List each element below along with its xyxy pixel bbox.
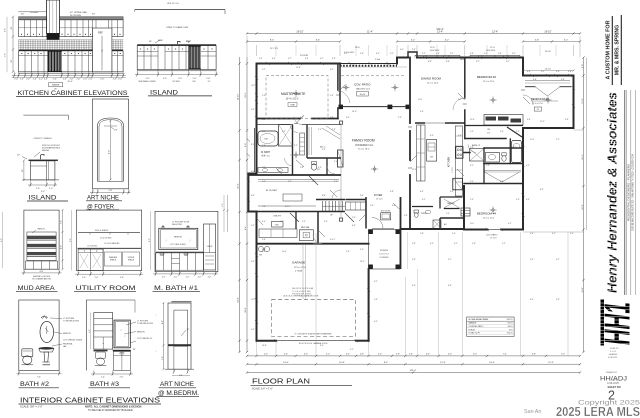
svg-text:8'-0": 8'-0" [1,238,3,242]
svg-text:Henry Hernandez & Associate: Henry Hernandez & Associates [605,92,620,293]
svg-text:30": 30" [21,14,24,16]
utility dims [77,272,79,276]
svg-text:WASHER: WASHER [109,256,118,259]
master window 3 [256,78,258,95]
svg-text:5'-2": 5'-2" [502,243,506,245]
svg-text:8'-0": 8'-0" [149,238,151,242]
svg-text:3050 WDW: 3050 WDW [486,50,495,52]
svg-text:11'-2": 11'-2" [251,85,256,87]
svg-text:9'-0": 9'-0" [222,203,224,207]
family west colonnade [340,121,343,124]
svg-text:MIRROR: MIRROR [137,331,145,333]
svg-text:22'-7 1/2: 22'-7 1/2 [270,48,279,50]
svg-text:6'-4": 6'-4" [245,226,247,230]
svg-text:BEDROOM #4: BEDROOM #4 [477,212,496,216]
svg-text:BATH #3: BATH #3 [90,381,119,388]
svg-text:2'-0": 2'-0" [82,277,86,279]
bath south wall [484,163,523,165]
svg-text:16'-10: 16'-10 [545,51,552,53]
svg-text:2'-8": 2'-8" [346,251,350,253]
svg-text:9'0: 9'0 [537,109,539,111]
svg-text:2'-8": 2'-8" [360,354,364,356]
master right wall lower [337,108,339,119]
svg-text:4'-2": 4'-2" [556,259,560,261]
svg-text:RAILING: RAILING [42,149,50,152]
utility room elevation [70,210,143,292]
bed3 window 2 [556,75,570,77]
svg-text:9'-4": 9'-4" [251,261,255,263]
svg-text:9' CLG: 9' CLG [452,167,454,173]
m.shower [279,125,293,147]
porch slab [368,230,400,270]
svg-text:ISLAND: ISLAND [29,195,57,202]
svg-text:2'-4": 2'-4" [101,377,105,379]
svg-text:PORCH: PORCH [380,250,388,252]
svg-text:12'-4": 12'-4" [440,362,446,364]
washer dryer spaces [105,252,122,266]
svg-text:4'-2": 4'-2" [512,53,516,55]
svg-text:2'-0": 2'-0" [264,354,268,356]
svg-text:4-08-2025: 4-08-2025 [608,357,618,359]
left step 2 [248,211,256,213]
bath3 left dim [90,313,92,350]
svg-text:FAMILY ROOM: FAMILY ROOM [352,139,375,143]
svg-text:ART NICHE: ART NICHE [87,195,119,201]
svg-text:5'-0": 5'-0" [556,71,560,73]
gallery bench [345,202,365,210]
svg-text:4-08-2025: 4-08-2025 [607,381,619,385]
svg-text:5'-0": 5'-0" [326,354,330,356]
svg-text:3'-6": 3'-6" [512,147,516,149]
svg-text:COVERED: COVERED [379,257,389,259]
svg-text:COFFERED CLG.: COFFERED CLG. [355,145,374,147]
svg-text:9'-8": 9'-8" [412,259,416,261]
svg-text:TO O.H. DOOR 2" MIN.: TO O.H. DOOR 2" MIN. [292,291,311,293]
svg-text:OPEN TO DINING: OPEN TO DINING [34,138,52,140]
svg-text:3'-2": 3'-2" [294,145,298,147]
kitchen sink island [427,140,437,162]
svg-text:5'-8": 5'-8" [385,65,389,67]
family east wall [409,131,411,160]
svg-text:VAULTED CLG: VAULTED CLG [356,88,371,91]
mud area elevation [1,209,64,292]
svg-text:BEDROOM #3: BEDROOM #3 [531,97,549,101]
kitchen east counter [455,126,462,196]
svg-text:16'-10": 16'-10" [296,31,303,33]
svg-text:SCALE: 3/8" = 1'-0": SCALE: 3/8" = 1'-0" [20,405,43,409]
exterior wall top [397,57,408,59]
svg-text:16'-10": 16'-10" [238,93,240,100]
light fixture [41,316,47,318]
right dimension lines [583,58,585,353]
mud slats [27,232,56,260]
svg-text:5'-8": 5'-8" [120,277,124,279]
left dimension lines [239,57,241,352]
svg-text:UTILITY: UTILITY [273,216,282,218]
garage left wall [256,212,258,341]
svg-text:7'-4": 7'-4" [37,376,41,378]
svg-text:SHIPLAP: SHIPLAP [37,241,46,244]
svg-text:3'-8": 3'-8" [565,119,569,121]
svg-text:5'-2": 5'-2" [448,259,452,261]
svg-text:3'-8": 3'-8" [568,71,572,73]
svg-text:GLOBAL AREA FRAME: GLOBAL AREA FRAME [468,318,489,321]
svg-text:3'-4": 3'-4" [430,135,434,137]
svg-text:4'-0": 4'-0" [304,354,308,356]
svg-text:2'-0": 2'-0" [113,78,117,80]
svg-text:2'-8": 2'-8" [412,243,416,245]
extra extension verticals top [276,45,556,56]
svg-text:W/ CROWN: W/ CROWN [70,15,81,17]
svg-text:2'-6": 2'-6" [446,213,450,215]
svg-text:ISLAND: ISLAND [150,89,178,96]
svg-text:5'-2": 5'-2" [288,58,292,60]
svg-text:2'-6": 2'-6" [120,377,124,379]
svg-text:5'-2": 5'-2" [506,61,510,63]
svg-text:5'-2": 5'-2" [262,69,266,71]
svg-text:2'-6": 2'-6" [262,95,266,97]
svg-text:11'-2": 11'-2" [251,299,256,301]
side cabinet body [31,161,55,180]
opening tick marks [247,56,575,342]
svg-text:2'-0": 2'-0" [174,277,178,279]
svg-text:6'-0": 6'-0" [262,181,266,183]
fireplace [338,150,344,167]
svg-text:M. CLOSET: M. CLOSET [266,190,278,192]
svg-text:5'-6": 5'-6" [530,259,534,261]
svg-text:3'-8": 3'-8" [334,181,338,183]
niche bottom [165,368,194,370]
svg-text:11'-0 x 12'-0: 11'-0 x 12'-0 [483,81,495,83]
toe kick [19,72,124,74]
svg-text:2'-0": 2'-0" [208,277,212,279]
kitchen north wall [415,122,425,124]
svg-text:12'-4": 12'-4" [492,31,498,33]
svg-text:RESIDENTIAL DESIGNERS - PLAN: RESIDENTIAL DESIGNERS - PLANNERS [626,164,630,221]
svg-text:TO BE FIELD VERIFIED BY BUILDE: TO BE FIELD VERIFIED BY BUILDER. [88,408,134,412]
master cluster [257,124,291,126]
master bottom wall 2 [312,118,338,120]
svg-text:5'-8": 5'-8" [470,147,474,149]
range (dark striped) [48,51,62,72]
island countertop [137,44,216,45]
side dims [23,161,25,180]
svg-text:COV. PATIO: COV. PATIO [486,234,498,237]
m.bath tub (horizontal) [258,131,278,146]
svg-text:13' CLG: 13' CLG [376,198,383,200]
svg-text:11'-0 x 12'-0: 11'-0 x 12'-0 [483,218,495,220]
svg-text:2'-8": 2'-8" [330,95,334,97]
svg-text:2'-6": 2'-6" [318,129,322,131]
mbath west inner wall [254,128,256,172]
powder [414,210,419,213]
linen cabinet [204,224,216,270]
svg-text:5'-6": 5'-6" [251,109,255,111]
svg-text:103'-4": 103'-4" [436,29,443,31]
pantry [440,196,463,198]
svg-text:PROVIDE EXP. JOINTS: PROVIDE EXP. JOINTS [292,294,312,296]
master window 2 [300,63,322,65]
svg-text:5'-0": 5'-0" [262,155,266,157]
bed4 window [487,229,501,231]
diagonal doors [290,213,299,222]
ceiling fans [292,84,551,214]
bed4 north wall [464,183,523,185]
svg-text:12'-4": 12'-4" [548,362,554,364]
svg-text:6'-2": 6'-2" [505,119,509,121]
svg-text:2'-8": 2'-8" [262,145,266,147]
svg-text:20'-0": 20'-0" [282,251,287,253]
svg-text:11'-0": 11'-0" [470,119,475,121]
mud bench [299,230,313,241]
svg-text:RANGE: RANGE [52,84,60,87]
svg-text:3'-2": 3'-2" [454,243,458,245]
svg-text:23'-0": 23'-0" [360,261,365,263]
svg-text:A CUSTOM HOME FOR: A CUSTOM HOME FOR [606,20,612,79]
bed3 window [532,75,548,77]
svg-text:INTERIOR CABINET ELEVATIONS: INTERIOR CABINET ELEVATIONS [20,395,160,404]
svg-text:MUD AREA: MUD AREA [18,285,56,292]
svg-text:LIN.: LIN. [487,129,491,131]
svg-text:4'-0": 4'-0" [420,191,424,193]
svg-text:DW: DW [430,157,433,159]
mud dims [62,210,64,269]
svg-text:4'-0": 4'-0" [262,221,266,223]
dining/bed2 wall [464,58,466,99]
svg-text:12'-6": 12'-6" [412,169,417,171]
patio screen wall (beaded) [340,63,397,65]
svg-text:5'-6": 5'-6" [500,131,504,133]
bed2 west wall [464,123,466,139]
svg-text:3'-2": 3'-2" [458,99,462,101]
svg-text:5'-8": 5'-8" [500,181,504,183]
svg-text:41'-0": 41'-0" [582,287,584,293]
svg-text:4'-2": 4'-2" [288,181,292,183]
exterior wall - master top [257,63,341,65]
svg-text:10'-8": 10'-8" [339,362,345,364]
svg-text:ART NICHE: ART NICHE [381,210,391,213]
svg-text:SEE NOTE: SLOPE SLAB: SEE NOTE: SLOPE SLAB [292,287,314,290]
svg-text:GARAGE: GARAGE [468,322,477,325]
svg-text:TO BE SELECTED: TO BE SELECTED [63,320,80,322]
bath3 mirror [114,320,130,348]
bath3 toilet [96,352,106,359]
svg-text:2'-8": 2'-8" [332,129,336,131]
bath3 notes [126,322,136,325]
utility counters [259,229,297,238]
svg-text:CUT & BEVEL GL.: CUT & BEVEL GL. [137,338,153,340]
bed3 wing bottom [523,127,574,129]
svg-text:FOYER: FOYER [374,194,383,197]
bath vanity [486,153,500,163]
svg-text:2-2x10 HDR: 2-2x10 HDR [344,52,355,54]
svg-text:5'-2": 5'-2" [484,53,488,55]
svg-text:24": 24" [208,81,211,83]
niche leader [181,330,186,336]
closet west wall [483,164,485,184]
closet south wall [465,125,523,127]
svg-text:2'-0": 2'-0" [77,78,81,80]
svg-text:2'-0": 2'-0" [63,78,67,80]
svg-text:4'-6": 4'-6" [89,329,91,333]
south wall at foyer-east [401,228,465,230]
svg-text:4'-0": 4'-0" [400,49,404,51]
svg-text:POCKET: POCKET [300,55,309,57]
kitchen dimension row [13,73,15,77]
svg-text:4'-8": 4'-8" [533,79,537,81]
dimension clutter [251,49,574,351]
svg-text:6'-4": 6'-4" [412,285,416,287]
svg-text:5'-8": 5'-8" [470,53,474,55]
svg-text:ART NICHE: ART NICHE [160,382,194,388]
svg-text:3'-8": 3'-8" [527,119,531,121]
svg-text:4'-8": 4'-8" [40,271,44,273]
svg-text:LG 4 DR WASHER: LG 4 DR WASHER [104,242,120,245]
svg-text:36": 36" [11,59,13,62]
svg-text:SELECTED: SELECTED [172,224,183,226]
svg-text:6'-2": 6'-2" [411,39,416,41]
dining window bay [408,52,417,58]
svg-text:11'-0": 11'-0" [470,223,475,225]
svg-text:36" SINK: 36" SINK [172,81,180,83]
small wall ticks (openings) [294,90,525,168]
svg-text:2-2x6: 2-2x6 [375,59,381,61]
svg-text:18'x10': 18'x10' [360,94,367,96]
svg-text:2'-0": 2'-0" [70,78,74,80]
svg-text:4" CONCRETE SLAB W/ VAPOR BARR: 4" CONCRETE SLAB W/ VAPOR BARRIER [295,332,333,335]
svg-text:2'-8": 2'-8" [396,354,400,356]
right wall lower [522,128,524,230]
svg-text:2'-2": 2'-2" [556,139,560,141]
master window [268,63,290,65]
svg-text:2'-6": 2'-6" [302,221,306,223]
bed2 south wall [465,138,506,140]
svg-text:TOTAL SQ FT: TOTAL SQ FT [468,332,481,335]
svg-text:3'-8": 3'-8" [412,49,416,51]
svg-text:2'-6": 2'-6" [162,356,164,360]
svg-text:11'-4": 11'-4" [367,31,373,33]
base cabinets [19,51,124,72]
svg-text:12'-8 x 9'-4: 12'-8 x 9'-4 [379,254,388,256]
svg-text:BEDROOM #2: BEDROOM #2 [477,75,496,79]
svg-text:11'-8": 11'-8" [296,67,301,69]
svg-text:4'-1.5": 4'-1.5" [330,239,336,241]
utility cabinets [78,249,103,270]
svg-text:8'-0": 8'-0" [5,28,7,32]
svg-text:2'-8": 2'-8" [404,215,408,217]
svg-text:4'-6": 4'-6" [262,131,266,133]
bed3 wing top [523,75,574,77]
svg-text:14'-4": 14'-4" [283,362,289,364]
garage [302,245,304,299]
svg-text:17'-6": 17'-6" [582,98,584,104]
svg-text:11'-0 x 13'-0: 11'-0 x 13'-0 [427,82,439,84]
svg-text:2'-0": 2'-0" [360,249,364,251]
svg-text:7'-0": 7'-0" [561,354,565,356]
svg-text:5'-8": 5'-8" [472,243,476,245]
tub [512,141,522,163]
svg-text:20'-0": 20'-0" [245,307,247,313]
svg-text:LG 4 DR W/D: LG 4 DR W/D [100,237,112,239]
svg-text:FLOOR PLAN: FLOOR PLAN [252,379,310,386]
svg-text:ROD & SHELF: ROD & SHELF [95,230,109,232]
svg-text:TO BE SELECTED: TO BE SELECTED [137,323,154,325]
upper cabinets [19,20,124,37]
svg-text:DINING ROOM: DINING ROOM [421,76,442,80]
svg-text:70": 70" [102,49,104,52]
svg-text:18": 18" [17,155,20,157]
svg-text:16'-10": 16'-10" [545,69,551,71]
svg-text:2'-8": 2'-8" [312,181,316,183]
island dishwasher (dark striped) [189,46,201,70]
svg-text:M. BATH #1: M. BATH #1 [154,285,198,292]
svg-text:5'-6": 5'-6" [420,111,424,113]
utility counter [78,247,142,249]
svg-text:3'-4": 3'-4" [346,354,350,356]
svg-text:BATH #2: BATH #2 [20,381,49,388]
svg-text:2'-6": 2'-6" [370,205,374,207]
garage bottom [257,340,277,342]
patio south colonnade [340,106,410,108]
entry door arc [372,228,394,230]
svg-text:PLAN NO: PLAN NO [610,347,619,350]
svg-text:10'-4": 10'-4" [67,81,72,83]
svg-text:20'-0 x 23'-0: 20'-0 x 23'-0 [294,267,307,269]
niche shelf [168,344,191,346]
svg-text:8'-8": 8'-8" [448,285,452,287]
svg-text:5'-8": 5'-8" [436,53,440,55]
svg-text:2'-8": 2'-8" [409,354,413,356]
svg-text:SINK BASE & DRWS: SINK BASE & DRWS [138,80,156,83]
svg-text:36": 36" [149,41,152,43]
svg-text:@ M.BEDRM.: @ M.BEDRM. [158,390,199,397]
cluster door arcs [285,125,336,175]
linen shelf column [300,133,305,155]
svg-text:2'-0": 2'-0" [20,78,24,80]
svg-text:5'-2": 5'-2" [476,61,480,63]
bed3 closet [536,87,560,96]
m.bath vanity [258,168,288,173]
svg-text:2'-0": 2'-0" [83,78,87,80]
svg-text:8'-4": 8'-4" [530,299,534,301]
svg-text:5'-0": 5'-0" [473,354,477,356]
svg-text:14'-6": 14'-6" [582,204,584,210]
svg-text:5'-2": 5'-2" [541,71,545,73]
kitchen left dim line [12,17,14,72]
svg-text:3'-0": 3'-0" [324,221,328,223]
svg-text:4'-2": 4'-2" [508,223,512,225]
attic access x-box [470,149,485,162]
svg-text:2'-8": 2'-8" [420,233,424,235]
svg-text:3'-2": 3'-2" [422,199,426,201]
angled wall bed3 entry [507,127,522,137]
svg-text:42": 42" [11,26,13,29]
side countertop [29,160,58,161]
linen by bed4 [461,208,470,216]
svg-text:5'-6": 5'-6" [251,329,255,331]
svg-text:2'-0": 2'-0" [39,78,43,80]
svg-text:6'-0": 6'-0" [305,58,309,60]
svg-text:14'-0": 14'-0" [352,111,357,113]
svg-text:3'-2": 3'-2" [280,221,284,223]
island dim row [136,73,138,77]
svg-text:MIRROR: MIRROR [63,333,71,335]
svg-text:17'-0 x 18'-0: 17'-0 x 18'-0 [358,149,370,151]
svg-text:2'-6": 2'-6" [334,161,338,163]
right wall upper [522,58,524,76]
svg-text:2'-0": 2'-0" [178,78,182,80]
svg-text:8'-0": 8'-0" [109,150,111,154]
